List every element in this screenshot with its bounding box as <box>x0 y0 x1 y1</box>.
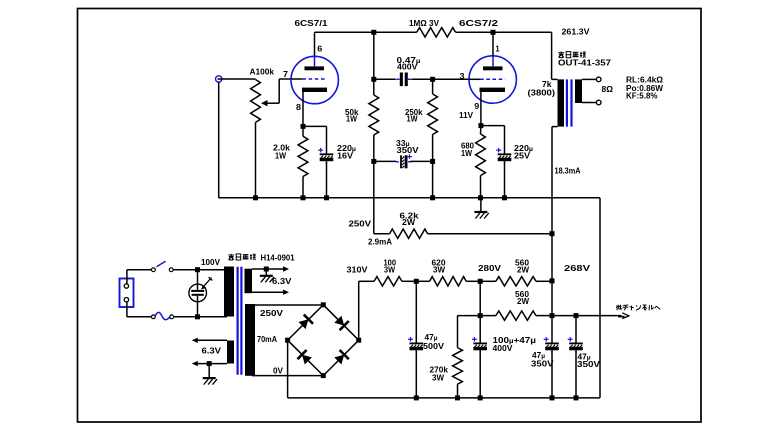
resistor R10 560 2W top <box>480 277 552 286</box>
U1 grid entry wire <box>291 78 302 80</box>
wire switch to PT bottom <box>174 316 227 318</box>
capacitor C5 47u 500V <box>408 281 423 398</box>
neon lamp NE1 <box>189 270 212 317</box>
node U2 cathode junction <box>478 123 483 128</box>
node bridge right <box>356 338 361 343</box>
switch S1a <box>152 261 174 271</box>
svg-text:350V: 350V <box>397 145 419 155</box>
svg-text:8: 8 <box>296 102 301 112</box>
wire rail right segment <box>456 31 552 33</box>
resistor R6 680 <box>476 126 486 198</box>
label 560 2W top <box>515 258 530 275</box>
wire to other channel <box>552 313 629 319</box>
label Kasuga OPT <box>558 52 611 68</box>
label 18.3mA <box>555 166 581 176</box>
wire jack to volume pot <box>218 78 256 80</box>
node 100u cap top <box>478 313 483 318</box>
node 6.2k right junction <box>550 231 555 236</box>
svg-text:2W: 2W <box>402 217 416 227</box>
node 250k bottom <box>430 159 435 164</box>
label 100u+47u 400V <box>493 335 537 353</box>
svg-text:0V: 0V <box>273 365 283 375</box>
wire 6.2k to B+ vertical <box>428 233 552 235</box>
svg-text:1MΩ 3V: 1MΩ 3V <box>409 18 439 28</box>
node pot ground <box>253 195 258 200</box>
label Kasuga PT <box>228 253 294 263</box>
label 680 <box>461 141 474 158</box>
wire 50k node drop <box>374 161 390 233</box>
svg-text:350V: 350V <box>577 359 600 369</box>
svg-text:3W: 3W <box>433 265 446 275</box>
node coupling junction A <box>371 77 376 82</box>
resistor R4 50k <box>369 79 379 161</box>
label 2.0k <box>273 143 290 161</box>
label 33u <box>396 138 410 148</box>
node heater left ground tap <box>207 361 212 366</box>
wire pot bottom to ground bus <box>255 122 257 197</box>
OPT primary winding <box>558 79 565 126</box>
wire 268V down <box>551 281 553 316</box>
wire 280V node down <box>479 281 481 315</box>
node heater ground tap <box>264 267 269 272</box>
U1 grid dashed <box>302 78 325 80</box>
wire heater bottom lead <box>252 290 289 295</box>
bridge diode D3 <box>297 350 312 365</box>
wire OPT sec bottom to terminal <box>582 102 597 104</box>
node R2 ground <box>301 195 306 200</box>
capacitor C6 100u+47u 400V <box>472 316 487 398</box>
node C1 ground <box>324 195 329 200</box>
svg-text:1W: 1W <box>275 150 287 160</box>
svg-text:6: 6 <box>317 44 322 54</box>
svg-text:8Ω: 8Ω <box>602 84 614 94</box>
capacitor C7 47u 350V <box>544 316 559 398</box>
wire plug top to switch <box>127 270 152 284</box>
U2 plate lead pin 1 <box>492 32 494 66</box>
label 250k <box>405 107 423 123</box>
label other channel <box>616 305 660 311</box>
svg-text:400V: 400V <box>397 62 418 72</box>
svg-text:280V: 280V <box>478 263 501 273</box>
label 220u 16V <box>337 143 356 161</box>
wire cathode to C1 <box>303 126 327 153</box>
node bus C7 <box>550 395 555 400</box>
svg-text:2.9mA: 2.9mA <box>368 237 392 247</box>
label 8 ohm <box>602 84 614 94</box>
svg-text:6CS7/1: 6CS7/1 <box>295 18 328 28</box>
PT primary winding <box>224 267 234 317</box>
resistor R11 560 2W bottom <box>458 311 553 320</box>
node 50k bottom <box>371 159 376 164</box>
node R5 ground <box>430 195 435 200</box>
label 100 3W <box>384 258 397 275</box>
PT heater winding 6.3V right <box>245 269 253 294</box>
resistor R5 250k <box>428 79 438 161</box>
svg-text:2W: 2W <box>517 296 530 306</box>
triode U1 6CS7/1 envelope <box>291 56 338 103</box>
switch S1b <box>152 312 174 319</box>
wire OPT primary bottom drop <box>552 127 558 234</box>
wire HV top to bridge <box>252 304 321 306</box>
pin label 6 <box>317 44 322 54</box>
svg-text:A100k: A100k <box>250 67 275 77</box>
output terminal + <box>596 77 601 82</box>
U2 cathode lead pin 9 <box>480 92 482 126</box>
potentiometer VR1 A100k <box>251 79 292 122</box>
label 50k <box>345 107 359 124</box>
svg-text:268V: 268V <box>564 263 590 273</box>
svg-text:70mA: 70mA <box>257 334 277 344</box>
U1 cathode <box>302 88 327 92</box>
label 47u 350V c7 <box>531 350 554 369</box>
wire B+ top rail <box>315 31 417 33</box>
node bridge bottom <box>321 373 326 378</box>
node lamp bottom <box>195 314 200 319</box>
label 280V <box>478 263 501 273</box>
capacitor C4 220u 25V <box>496 148 511 164</box>
svg-text:9: 9 <box>474 101 479 111</box>
label A100k <box>250 67 275 77</box>
label 7k 3800 <box>528 79 556 98</box>
svg-text:16V: 16V <box>337 151 353 161</box>
wire coupling cap to grid node <box>412 78 433 80</box>
node PSU 268V <box>550 278 555 283</box>
node U1 plate rail junction <box>371 30 376 35</box>
resistor R2 2.0k <box>298 126 308 197</box>
wire rail to OPT primary <box>552 32 558 79</box>
resistor R8 100 3W <box>374 277 402 286</box>
node bus C5 <box>414 395 419 400</box>
wire 50k bottom to 33u <box>374 160 397 162</box>
PT core <box>238 267 242 375</box>
label 310V <box>347 265 368 275</box>
node 560b right <box>550 313 555 318</box>
U2 cathode <box>480 88 506 92</box>
wire bridge minus to bus <box>287 340 289 398</box>
label 47u 500V <box>423 332 444 351</box>
wire heater left top lead <box>192 338 227 343</box>
wire C1 to ground bus <box>326 161 328 197</box>
svg-text:3: 3 <box>460 71 465 81</box>
PT heater winding 6.3V left <box>227 341 234 364</box>
wire bridge plus up <box>359 281 374 340</box>
pin label 7 <box>283 69 288 79</box>
label 0.47u <box>397 55 421 65</box>
svg-text:100V: 100V <box>201 257 220 267</box>
capacitor C1 220u 16V <box>318 148 333 164</box>
ground symbol G1 <box>474 198 488 219</box>
bridge diode D2 <box>334 316 349 331</box>
node bridge top <box>321 302 326 307</box>
svg-text:1W: 1W <box>407 113 419 123</box>
bridge frame <box>288 305 359 376</box>
capacitor C2 0.47u <box>396 73 411 87</box>
wire switch to PT top <box>173 269 227 271</box>
U2 grid dashed <box>480 78 505 80</box>
label 268V <box>564 263 590 273</box>
wire grid node to U2 <box>433 78 470 80</box>
capacitor C8 47u 350V <box>568 316 583 398</box>
svg-text:500V: 500V <box>423 341 444 351</box>
border frame <box>78 9 702 423</box>
label 270k 3W <box>430 365 449 383</box>
svg-text:2W: 2W <box>517 265 530 275</box>
svg-text:(3800): (3800) <box>528 88 556 98</box>
resistor R9 620 3W <box>416 277 480 286</box>
svg-text:25V: 25V <box>514 151 530 161</box>
node bus R12 <box>455 395 460 400</box>
bottom bus wire <box>288 397 600 399</box>
wire heater left bottom lead <box>192 361 227 366</box>
svg-text:350V: 350V <box>531 359 554 369</box>
svg-text:6.3V: 6.3V <box>272 276 292 286</box>
label 6.2k 2W <box>400 211 419 227</box>
label 2.9mA <box>368 237 392 247</box>
node U2 plate rail junction <box>491 30 496 35</box>
U1 plate <box>305 66 325 70</box>
U1 cathode lead pin 8 <box>302 92 304 126</box>
svg-text:KF:5.8%: KF:5.8% <box>626 91 658 101</box>
wire HV bottom to bridge <box>252 375 322 377</box>
bridge diode D1 <box>299 315 314 330</box>
wire B+ vertical to 268V node <box>551 234 553 281</box>
plug pin top <box>124 284 128 288</box>
ground bus wire <box>219 197 600 199</box>
svg-text:H14-0901: H14-0901 <box>261 253 295 263</box>
input jack J1 <box>216 76 222 82</box>
label 261.3V <box>562 27 590 37</box>
label 6CS7/1 <box>295 18 328 28</box>
resistor R7 6.2k <box>390 229 428 238</box>
label 250V winding <box>260 308 283 318</box>
pin label 3 <box>460 71 465 81</box>
label 1M 3V <box>409 18 439 28</box>
node U1 cathode junction <box>301 124 306 129</box>
wire C4 to ground bus <box>504 161 506 197</box>
OPT secondary winding <box>575 79 582 103</box>
wire OPT sec top to terminal <box>582 78 597 80</box>
wire node A to coupling cap <box>374 78 396 80</box>
label RL Po KF <box>626 75 664 101</box>
resistor R12 270k 3W <box>453 316 463 398</box>
node C4 ground <box>502 195 507 200</box>
AC plug P1 <box>120 279 134 308</box>
svg-text:18.3mA: 18.3mA <box>555 166 581 176</box>
U2 grid entry <box>469 78 480 80</box>
label 350V c3 <box>397 145 419 155</box>
svg-text:310V: 310V <box>347 265 368 275</box>
label 47u 350V c8 <box>577 351 600 369</box>
node R6 ground <box>478 195 483 200</box>
heater ground symbol <box>260 269 274 282</box>
svg-text:3W: 3W <box>384 265 396 275</box>
wire heater top lead <box>252 266 289 271</box>
OPT core <box>567 79 572 126</box>
node lamp top <box>195 267 200 272</box>
wire ground bus corner <box>599 198 601 398</box>
label 560 2W bottom <box>515 289 530 306</box>
U1 plate lead pin 6 <box>314 32 316 66</box>
pin label 8 <box>296 102 301 112</box>
wire jack to ground bus <box>219 82 221 198</box>
plug pin bottom <box>124 298 128 302</box>
label 620 3W <box>432 258 446 275</box>
label 11V <box>459 110 473 120</box>
pin label 1 <box>496 44 500 54</box>
node PSU 1 <box>414 279 419 284</box>
wire R8 to node1 <box>402 280 416 282</box>
svg-text:OUT-41-357: OUT-41-357 <box>558 58 611 68</box>
pin label 9 <box>474 101 479 111</box>
bridge diode D4 <box>334 350 349 365</box>
node bridge left <box>285 338 290 343</box>
output terminal - <box>596 100 601 105</box>
svg-text:6.3V: 6.3V <box>202 346 222 356</box>
U2 plate <box>483 66 503 70</box>
svg-text:250V: 250V <box>260 308 283 318</box>
capacitor C3 33u <box>396 154 412 168</box>
label 6.3V left <box>202 346 222 356</box>
svg-text:1: 1 <box>496 44 500 54</box>
label 70mA <box>257 334 277 344</box>
wire U1 plate node drop <box>373 32 375 79</box>
wire plug bottom to switch <box>127 302 151 317</box>
svg-text:11V: 11V <box>459 110 473 120</box>
node PSU 2 280V <box>478 279 483 284</box>
wire 250k bottom to ground bus <box>432 161 434 197</box>
label 220u 25V <box>514 143 533 161</box>
node U2 grid junction <box>430 77 435 82</box>
label 6.3V right <box>272 276 292 286</box>
svg-text:3W: 3W <box>432 373 445 383</box>
heater left ground symbol <box>203 364 217 385</box>
triode U2 6CS7/2 envelope <box>469 56 516 103</box>
svg-text:1W: 1W <box>461 148 473 158</box>
node C8 top <box>574 313 579 318</box>
svg-text:400V: 400V <box>493 343 513 353</box>
label 100V <box>201 257 220 267</box>
label 6CS7/2 <box>459 18 498 28</box>
resistor R3 1M <box>417 28 456 37</box>
svg-text:1W: 1W <box>346 114 358 124</box>
label 0V <box>273 365 283 375</box>
node bus C6 <box>478 395 483 400</box>
PT HV winding <box>245 304 255 376</box>
node bus C8 <box>574 395 579 400</box>
svg-text:250V: 250V <box>349 219 372 229</box>
svg-text:6CS7/2: 6CS7/2 <box>459 18 498 28</box>
wire 33u to 250k bottom <box>410 160 432 162</box>
svg-text:7: 7 <box>283 69 288 79</box>
label 250V node <box>349 219 372 229</box>
wire cathode2 to C4 <box>481 126 505 154</box>
label 400V <box>397 62 418 72</box>
svg-text:261.3V: 261.3V <box>562 27 590 37</box>
